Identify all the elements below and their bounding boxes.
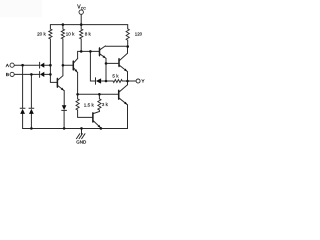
svg-text:20 k: 20 k — [37, 32, 46, 37]
svg-text:CC: CC — [81, 6, 87, 10]
svg-text:3 k: 3 k — [102, 102, 109, 107]
svg-text:B: B — [6, 72, 9, 78]
svg-text:120: 120 — [135, 31, 143, 36]
svg-text:8 k: 8 k — [85, 32, 92, 37]
svg-text:1.5 k: 1.5 k — [84, 102, 95, 107]
svg-text:GND: GND — [76, 140, 87, 145]
svg-text:5 k: 5 k — [112, 74, 119, 79]
svg-text:10 k: 10 k — [66, 32, 75, 37]
